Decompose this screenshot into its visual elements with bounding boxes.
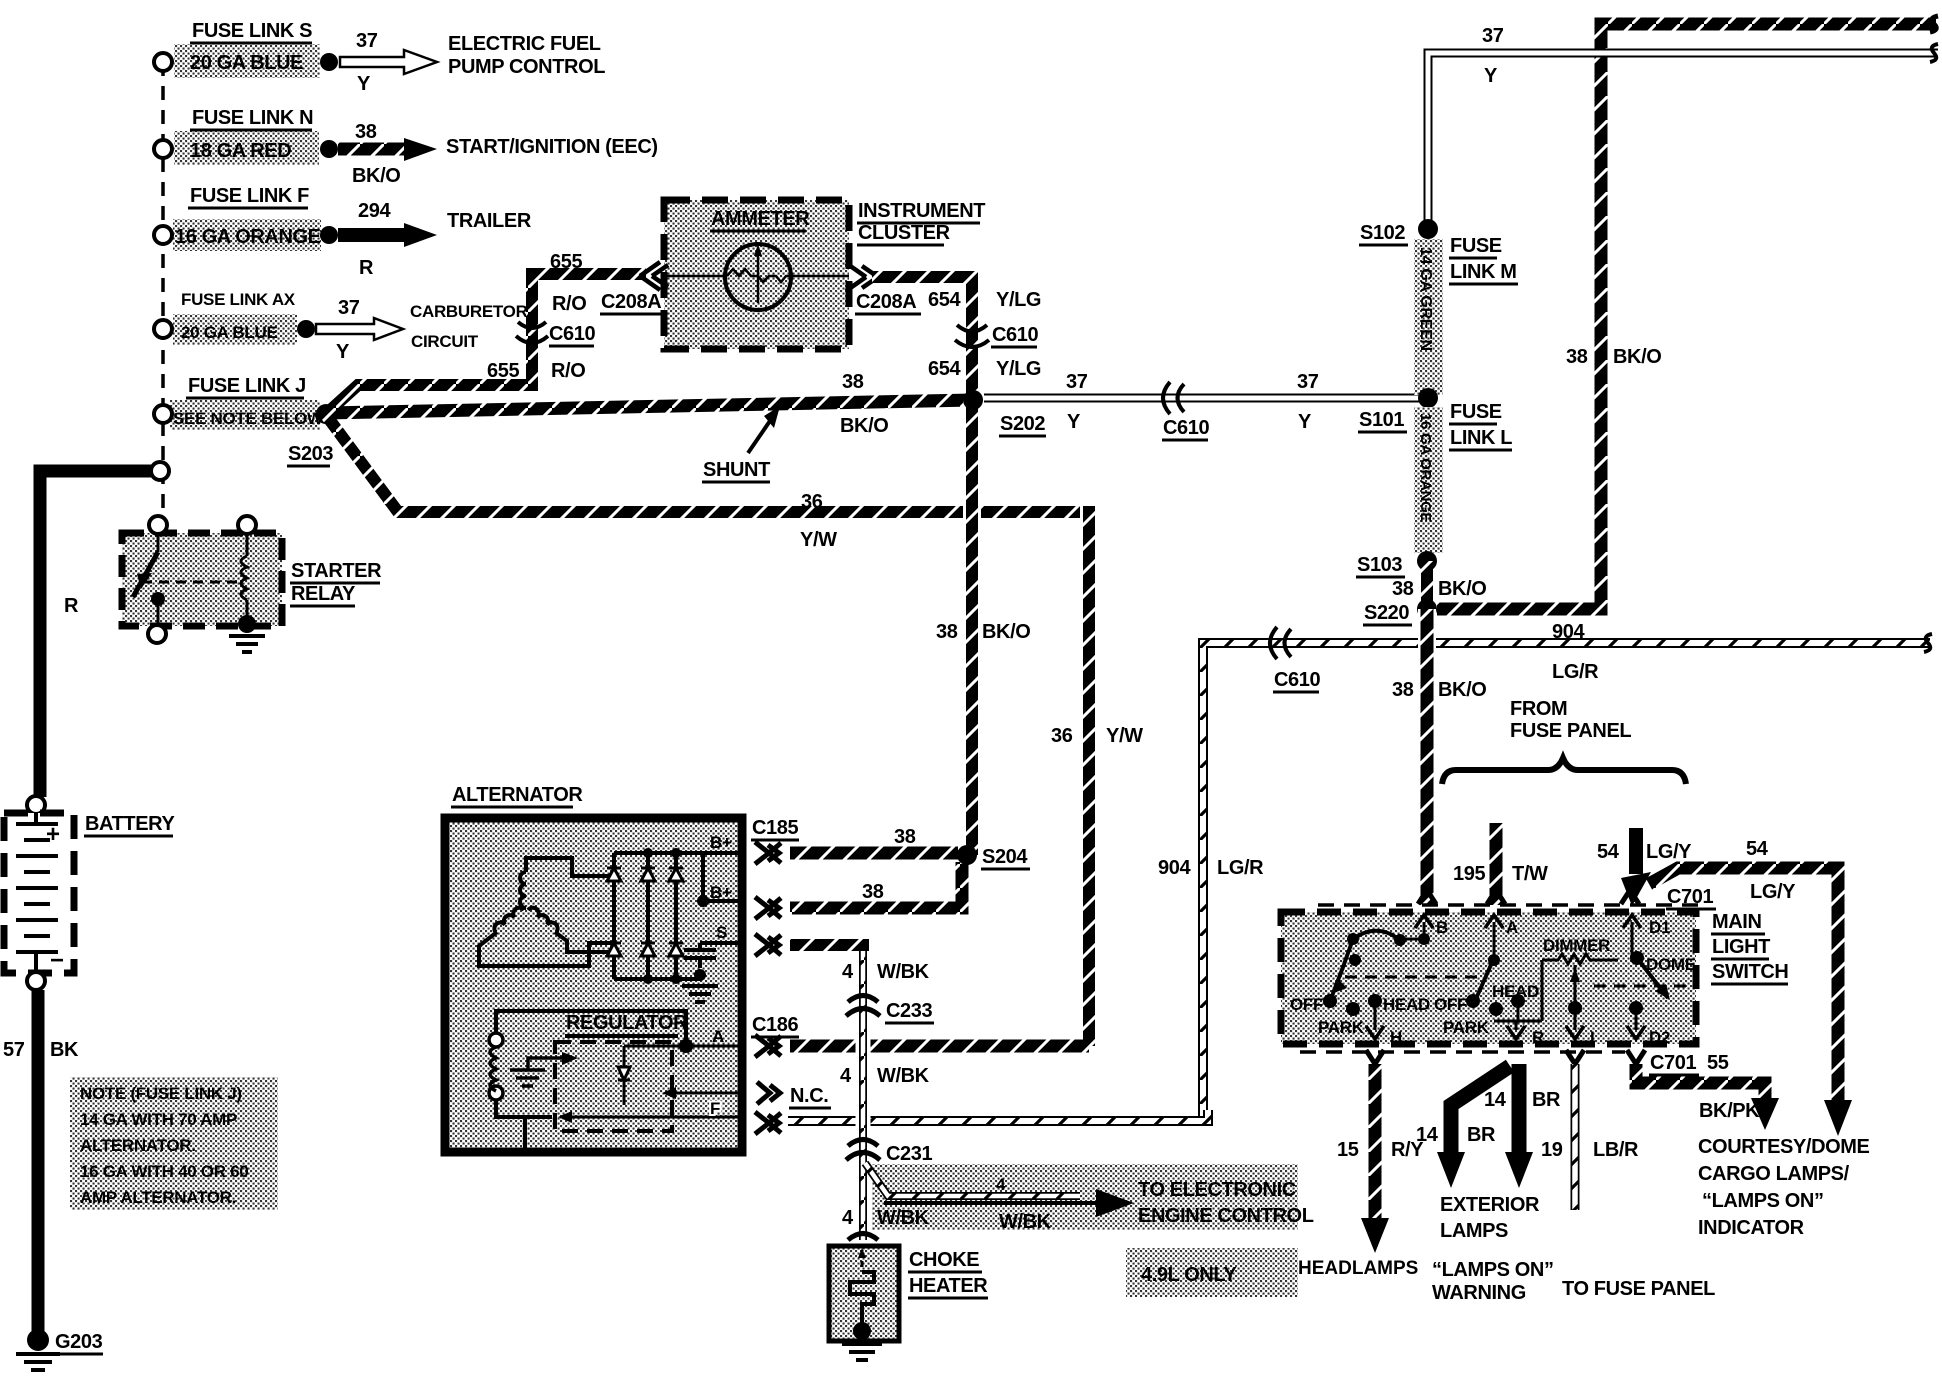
battery box bbox=[4, 813, 74, 973]
svg-text:54: 54 bbox=[1597, 841, 1620, 863]
svg-text:C233: C233 bbox=[886, 1000, 932, 1022]
svg-text:COURTESY/DOME: COURTESY/DOME bbox=[1698, 1136, 1870, 1158]
alternator box bbox=[445, 818, 742, 1152]
svg-text:CHOKE: CHOKE bbox=[909, 1249, 979, 1271]
svg-text:Y/W: Y/W bbox=[800, 529, 837, 551]
svg-text:INDICATOR: INDICATOR bbox=[1698, 1217, 1805, 1239]
svg-text:FUSE LINK F: FUSE LINK F bbox=[190, 185, 309, 207]
svg-text:W/BK: W/BK bbox=[877, 961, 930, 983]
H contact lead bbox=[1374, 1001, 1377, 1030]
svg-text:Y: Y bbox=[1298, 411, 1312, 433]
svg-text:F: F bbox=[710, 1099, 720, 1118]
svg-text:C208A: C208A bbox=[601, 291, 661, 313]
svg-text:C610: C610 bbox=[1274, 669, 1320, 691]
svg-text:OFF: OFF bbox=[1434, 995, 1467, 1014]
svg-text:“LAMPS ON”: “LAMPS ON” bbox=[1432, 1259, 1554, 1281]
svg-text:PUMP CONTROL: PUMP CONTROL bbox=[448, 56, 605, 78]
svg-text:ELECTRIC FUEL: ELECTRIC FUEL bbox=[448, 33, 601, 55]
svg-text:FUSE LINK J: FUSE LINK J bbox=[188, 375, 306, 397]
svg-text:CARGO LAMPS/: CARGO LAMPS/ bbox=[1698, 1163, 1850, 1185]
svg-text:38: 38 bbox=[894, 826, 916, 848]
svg-text:C208A: C208A bbox=[856, 291, 916, 313]
node S102 bbox=[1418, 219, 1438, 239]
svg-text:PARK: PARK bbox=[1318, 1018, 1365, 1037]
svg-text:RELAY: RELAY bbox=[291, 583, 356, 605]
svg-text:654: 654 bbox=[928, 358, 961, 380]
node dots in left switch section bbox=[1418, 933, 1430, 945]
fuse link M shaded band 14 GA GREEN bbox=[1414, 239, 1443, 395]
regulator dashed box bbox=[555, 1042, 672, 1131]
wire 36 Y/W from splice diagonal then right bbox=[326, 415, 1089, 512]
svg-text:D1: D1 bbox=[1649, 918, 1670, 937]
wire 14 BR right branch to exterior lamps bbox=[1512, 1064, 1527, 1152]
svg-text:294: 294 bbox=[358, 200, 391, 222]
node: fuse link J terminal circle bbox=[154, 405, 172, 423]
wire 37 Y hollow arrow to electric fuel pump control bbox=[340, 50, 437, 74]
svg-text:MAIN: MAIN bbox=[1712, 911, 1762, 933]
svg-text:W/BK: W/BK bbox=[877, 1065, 930, 1087]
A wiper bbox=[1475, 958, 1494, 1001]
node S220 bbox=[1417, 599, 1437, 619]
switch arm from B bbox=[1400, 938, 1424, 941]
wire 38 from C185 B+ to S204 bbox=[790, 847, 958, 860]
node: splice dot at fuse link N output bbox=[320, 140, 338, 158]
node: A output dot bbox=[624, 1045, 742, 1048]
dome wiper bbox=[1637, 958, 1668, 998]
svg-text:19: 19 bbox=[1541, 1139, 1563, 1161]
svg-text:BK/O: BK/O bbox=[982, 621, 1030, 643]
svg-text:ALTERNATOR.: ALTERNATOR. bbox=[80, 1136, 196, 1155]
svg-text:WARNING: WARNING bbox=[1432, 1282, 1526, 1304]
svg-text:37: 37 bbox=[356, 30, 378, 52]
svg-text:FROM: FROM bbox=[1510, 698, 1567, 720]
svg-text:SWITCH: SWITCH bbox=[1712, 961, 1788, 983]
wire branch from C231 to EEC arrow bbox=[865, 1163, 1080, 1196]
svg-text:TO FUSE PANEL: TO FUSE PANEL bbox=[1562, 1278, 1715, 1300]
wire 37 Y hollow from S202 to S101 bbox=[984, 394, 1428, 403]
svg-text:S101: S101 bbox=[1359, 409, 1404, 431]
node: relay coil ground dot bbox=[238, 615, 256, 633]
svg-text:C186: C186 bbox=[752, 1014, 798, 1036]
svg-text:38: 38 bbox=[1392, 679, 1414, 701]
svg-text:+: + bbox=[46, 821, 60, 848]
terminal B arrow bbox=[1423, 922, 1426, 938]
ground (alternator internal) bbox=[694, 969, 706, 981]
4.9L only shaded box bbox=[1126, 1248, 1298, 1297]
svg-text:4: 4 bbox=[996, 1175, 1006, 1194]
fuse link N shaded body bbox=[174, 131, 319, 165]
dimmer rheostat bbox=[1542, 954, 1618, 964]
svg-text:4: 4 bbox=[840, 1065, 852, 1087]
ground (starter relay) bbox=[229, 636, 265, 652]
svg-text:CLUSTER: CLUSTER bbox=[858, 222, 951, 244]
svg-text:D2: D2 bbox=[1649, 1028, 1670, 1047]
regulator internal diode bbox=[618, 1067, 630, 1080]
ground (choke heater) bbox=[842, 1344, 882, 1360]
choke heater element bbox=[861, 1250, 864, 1272]
dashed detent line bbox=[1345, 976, 1481, 979]
svg-text:16 GA WITH 40 OR 60: 16 GA WITH 40 OR 60 bbox=[80, 1162, 248, 1181]
ammeter box (instrument cluster) bbox=[664, 200, 849, 349]
node: splice dot at fuse link AX output bbox=[297, 320, 315, 338]
svg-text:I: I bbox=[1590, 1028, 1594, 1047]
connector C610 on 904 wire bbox=[1270, 627, 1291, 659]
starter relay box bbox=[122, 533, 282, 626]
regulator internal ground bbox=[510, 1070, 545, 1086]
svg-text:18 GA RED: 18 GA RED bbox=[190, 140, 291, 162]
svg-text:4: 4 bbox=[842, 1207, 854, 1229]
wire: dashed feed line from battery junction up fuse links bbox=[161, 62, 165, 530]
wire 38 BK/O from S220 down to light switch B bbox=[1418, 609, 1436, 905]
svg-text:37: 37 bbox=[1066, 371, 1088, 393]
svg-text:ALTERNATOR: ALTERNATOR bbox=[452, 784, 583, 806]
svg-text:FUSE: FUSE bbox=[1450, 235, 1502, 257]
svg-text:W/BK: W/BK bbox=[877, 1207, 930, 1229]
svg-text:DOME: DOME bbox=[1646, 955, 1696, 974]
svg-text:FUSE: FUSE bbox=[1450, 401, 1502, 423]
node: relay switch top terminal bbox=[149, 516, 167, 534]
svg-text:R/O: R/O bbox=[551, 360, 585, 382]
svg-text:NOTE (FUSE LINK J): NOTE (FUSE LINK J) bbox=[80, 1084, 242, 1103]
connector C233 bbox=[846, 996, 880, 1017]
connector C610 on 655 wire bbox=[516, 322, 548, 343]
wire 904 LG/R hollow hatched bbox=[1203, 643, 1930, 1121]
fuse link F shaded body bbox=[173, 219, 321, 251]
connector C208A left half bbox=[640, 262, 668, 290]
wire 38 BK/O hatched arrow to start/ignition bbox=[338, 143, 404, 156]
wire F output hollow to 904 riser bbox=[788, 1110, 1208, 1121]
node: D2 dot bbox=[1629, 1001, 1643, 1015]
svg-text:EXTERIOR: EXTERIOR bbox=[1440, 1194, 1540, 1216]
svg-text:Y/W: Y/W bbox=[1106, 725, 1143, 747]
capacitor inside alternator bbox=[684, 943, 716, 968]
svg-text:38: 38 bbox=[1392, 578, 1414, 600]
svg-text:STARTER: STARTER bbox=[291, 560, 382, 582]
wire to N.C. pin bbox=[676, 1092, 742, 1095]
svg-text:AMP ALTERNATOR.: AMP ALTERNATOR. bbox=[80, 1188, 236, 1207]
wire S terminal stub bbox=[790, 939, 869, 951]
field winding coil bbox=[490, 1047, 496, 1091]
fuse link S shaded body bbox=[174, 44, 320, 78]
node: fuse link F terminal circle bbox=[154, 226, 172, 244]
svg-text:38: 38 bbox=[1566, 346, 1588, 368]
node: battery negative terminal circle bbox=[27, 972, 45, 990]
node: relay coil top terminal bbox=[238, 516, 256, 534]
wire 294 R solid arrow to trailer bbox=[338, 228, 404, 242]
brace under from fuse panel bbox=[1442, 758, 1686, 784]
svg-text:LG/Y: LG/Y bbox=[1750, 881, 1796, 903]
svg-text:BK: BK bbox=[50, 1039, 79, 1061]
svg-text:C185: C185 bbox=[752, 817, 798, 839]
choke heater box bbox=[829, 1246, 899, 1341]
ammeter internal wire bbox=[664, 275, 727, 278]
svg-text:14 GA GREEN: 14 GA GREEN bbox=[1417, 247, 1434, 351]
fuse link AX shaded body bbox=[173, 314, 297, 345]
svg-text:904: 904 bbox=[1552, 621, 1585, 643]
connector C610 on 654 wire bbox=[955, 325, 989, 347]
svg-text:54: 54 bbox=[1746, 838, 1769, 860]
node: choke heater ground dot bbox=[853, 1322, 871, 1340]
node: fuse link AX terminal circle bbox=[154, 320, 172, 338]
connector forks at switch bottom bbox=[1366, 1050, 1645, 1064]
svg-text:36: 36 bbox=[801, 491, 823, 513]
dimmer tap bbox=[1574, 965, 1577, 1003]
svg-text:FUSE LINK N: FUSE LINK N bbox=[192, 107, 313, 129]
svg-text:Y: Y bbox=[1484, 65, 1498, 87]
svg-text:14: 14 bbox=[1416, 1124, 1439, 1146]
svg-text:S204: S204 bbox=[982, 846, 1028, 868]
svg-text:37: 37 bbox=[1482, 25, 1504, 47]
svg-text:HEADLAMPS: HEADLAMPS bbox=[1298, 1258, 1418, 1279]
regulator outer line bbox=[496, 1011, 686, 1152]
wire to F pin bbox=[560, 1116, 742, 1119]
wire break hook at right end of 904 bbox=[1924, 634, 1932, 652]
svg-text:55: 55 bbox=[1707, 1052, 1729, 1074]
wire 38 BK/O shunt from splice to S202 bbox=[326, 400, 973, 413]
svg-text:20 GA BLUE: 20 GA BLUE bbox=[181, 323, 278, 342]
svg-text:FUSE LINK AX: FUSE LINK AX bbox=[181, 290, 296, 309]
svg-text:36: 36 bbox=[1051, 725, 1073, 747]
connector C186 pins bbox=[755, 1035, 781, 1134]
dashed detent line (right) bbox=[1594, 985, 1688, 988]
svg-text:655: 655 bbox=[550, 251, 582, 273]
svg-text:Y/LG: Y/LG bbox=[996, 358, 1041, 380]
svg-text:4: 4 bbox=[842, 961, 854, 983]
wire 38 BK/O heavy feed (top) bbox=[1437, 24, 1936, 609]
svg-text:G203: G203 bbox=[55, 1331, 103, 1353]
svg-text:16 GA ORANGE: 16 GA ORANGE bbox=[1417, 413, 1434, 522]
node: relay output terminal bbox=[148, 625, 166, 643]
connector C208A right half bbox=[846, 263, 878, 291]
node: off2 dot bbox=[1466, 994, 1480, 1008]
node: head2/park2 dots bbox=[1489, 1002, 1503, 1016]
ground G203 bbox=[27, 1329, 49, 1351]
svg-text:LIGHT: LIGHT bbox=[1712, 936, 1770, 958]
node: splice dot at fuse link S output bbox=[320, 53, 338, 71]
svg-text:4.9L ONLY: 4.9L ONLY bbox=[1141, 1264, 1237, 1286]
svg-text:C610: C610 bbox=[1163, 417, 1209, 439]
svg-text:OFF: OFF bbox=[1290, 995, 1323, 1014]
wire 14 BR left branch to exterior lamps bbox=[1451, 1066, 1510, 1152]
svg-text:H: H bbox=[1390, 1028, 1402, 1047]
node S202 bbox=[963, 390, 983, 410]
battery plates symbol bbox=[16, 813, 58, 973]
svg-text:C610: C610 bbox=[549, 323, 595, 345]
svg-text:HEAD: HEAD bbox=[1383, 995, 1430, 1014]
relay coil bbox=[246, 534, 249, 556]
node: fuse link N terminal circle bbox=[154, 140, 172, 158]
node S204 bbox=[957, 845, 977, 865]
svg-text:LINK L: LINK L bbox=[1450, 427, 1512, 449]
wire 4 W/BK from C186 A to 36 Y/W leg bbox=[790, 1040, 1089, 1053]
wire: heavy battery positive cable R bbox=[40, 471, 152, 797]
svg-text:FUSE PANEL: FUSE PANEL bbox=[1510, 720, 1631, 742]
svg-text:BR: BR bbox=[1532, 1089, 1561, 1111]
svg-text:W/BK: W/BK bbox=[999, 1211, 1052, 1233]
node S101 bbox=[1418, 388, 1438, 408]
svg-text:CARBURETOR: CARBURETOR bbox=[410, 302, 528, 321]
svg-text:37: 37 bbox=[338, 297, 360, 319]
wire 655 R/O from fuse link J splice up to C610 and ammeter bbox=[326, 274, 646, 414]
svg-text:B+: B+ bbox=[710, 833, 732, 852]
svg-text:14: 14 bbox=[1484, 1089, 1507, 1111]
R contact leads bbox=[1494, 960, 1542, 1030]
svg-text:S220: S220 bbox=[1364, 602, 1409, 624]
svg-text:INSTRUMENT: INSTRUMENT bbox=[858, 200, 985, 222]
terminal D1 arrow bbox=[1631, 922, 1634, 956]
wire break hook at right end of 37 feed bbox=[1930, 44, 1938, 62]
stator windings bbox=[479, 858, 614, 966]
svg-text:BK/O: BK/O bbox=[840, 415, 888, 437]
svg-text:38: 38 bbox=[355, 121, 377, 143]
wire 38 BK/O from S202 down to S204 bbox=[963, 400, 981, 855]
wire 38 BK/O between S103 and S220 bbox=[1421, 561, 1433, 609]
svg-text:ENGINE CONTROL: ENGINE CONTROL bbox=[1138, 1205, 1314, 1227]
svg-text:LINK M: LINK M bbox=[1450, 261, 1516, 283]
svg-text:Y: Y bbox=[1067, 411, 1081, 433]
svg-text:BK/O: BK/O bbox=[1438, 679, 1486, 701]
terminal A arrow bbox=[1493, 922, 1496, 958]
svg-text:R/O: R/O bbox=[552, 293, 586, 315]
wire 37 Y hollow arrow to carburetor circuit bbox=[316, 318, 403, 340]
connector C185 pins bbox=[755, 842, 781, 956]
svg-text:655: 655 bbox=[487, 360, 519, 382]
wire 55 BK/PK from D2 to courtesy lamps bbox=[1636, 1064, 1765, 1098]
svg-text:S103: S103 bbox=[1357, 554, 1402, 576]
svg-text:904: 904 bbox=[1158, 857, 1191, 879]
svg-text:BR: BR bbox=[1467, 1124, 1496, 1146]
diodes top row bbox=[607, 868, 683, 881]
svg-text:16 GA ORANGE: 16 GA ORANGE bbox=[175, 226, 321, 248]
svg-text:38: 38 bbox=[842, 371, 864, 393]
relay switch blade bbox=[157, 534, 160, 552]
svg-text:N.C.: N.C. bbox=[790, 1085, 828, 1107]
svg-text:CIRCUIT: CIRCUIT bbox=[411, 332, 479, 351]
node: diode rail junction dots bbox=[643, 848, 653, 858]
svg-text:A: A bbox=[1506, 918, 1518, 937]
wire 57 BK battery ground cable bbox=[32, 990, 45, 1338]
svg-text:38: 38 bbox=[936, 621, 958, 643]
wire 15 R/Y to headlamps bbox=[1369, 1064, 1382, 1218]
svg-text:R: R bbox=[359, 257, 374, 279]
svg-text:BATTERY: BATTERY bbox=[85, 813, 175, 835]
wire break hook at right end of 38 feed bbox=[1930, 16, 1938, 32]
node: relay lower contact bbox=[151, 592, 165, 606]
fuse link J shaded body bbox=[170, 400, 320, 430]
arrow to electronic engine control bbox=[884, 1201, 1096, 1205]
wire 4 W/BK hollow vertical from S stub to choke heater bbox=[856, 945, 871, 1240]
svg-text:R: R bbox=[64, 595, 79, 617]
connector above choke heater bbox=[848, 1234, 878, 1241]
relay actuating dashed link bbox=[142, 581, 240, 584]
svg-text:Y: Y bbox=[336, 341, 350, 363]
wire 654 Y/LG from ammeter right to S202 bbox=[872, 277, 972, 398]
svg-text:SEE NOTE BELOW: SEE NOTE BELOW bbox=[173, 409, 324, 428]
svg-text:14 GA WITH 70 AMP: 14 GA WITH 70 AMP bbox=[80, 1110, 237, 1129]
svg-text:38: 38 bbox=[862, 881, 884, 903]
svg-text:TO ELECTRONIC: TO ELECTRONIC bbox=[1138, 1179, 1296, 1201]
svg-text:BK/PK: BK/PK bbox=[1699, 1100, 1760, 1122]
svg-text:“LAMPS ON”: “LAMPS ON” bbox=[1702, 1190, 1824, 1212]
svg-text:BK/O: BK/O bbox=[1438, 578, 1486, 600]
svg-text:S: S bbox=[716, 923, 727, 942]
svg-text:R: R bbox=[1532, 1028, 1544, 1047]
wire 54 LG/Y branch to courtesy lamps bbox=[1649, 868, 1838, 1100]
svg-text:SHUNT: SHUNT bbox=[703, 459, 770, 481]
svg-text:FUSE LINK S: FUSE LINK S bbox=[192, 20, 312, 42]
C701 dashed connector line (bottom) bbox=[1300, 1050, 1625, 1054]
connector C610 on 37 wire bbox=[1163, 382, 1184, 414]
svg-text:654: 654 bbox=[928, 289, 961, 311]
ammeter meter circle bbox=[725, 244, 791, 310]
svg-text:B: B bbox=[1436, 918, 1448, 937]
fuse link L shaded band 16 GA ORANGE bbox=[1414, 407, 1443, 553]
svg-text:BK/O: BK/O bbox=[1613, 346, 1661, 368]
EEC shaded box bbox=[872, 1164, 1298, 1230]
svg-text:15: 15 bbox=[1337, 1139, 1359, 1161]
node: splice dot S203 feed bbox=[316, 404, 336, 424]
svg-text:A: A bbox=[712, 1027, 724, 1046]
svg-text:START/IGNITION (EEC): START/IGNITION (EEC) bbox=[446, 136, 658, 158]
svg-text:LG/R: LG/R bbox=[1552, 661, 1599, 683]
node: splice dot at fuse link F output bbox=[320, 226, 338, 244]
svg-text:−: − bbox=[50, 947, 64, 974]
svg-text:T/W: T/W bbox=[1512, 863, 1548, 885]
svg-text:S202: S202 bbox=[1000, 413, 1045, 435]
svg-text:LG/Y: LG/Y bbox=[1646, 841, 1692, 863]
wire 37 Y hollow feed (top) bbox=[1428, 53, 1938, 229]
note box (fuse link J note) bbox=[70, 1077, 278, 1210]
ammeter needle bbox=[757, 252, 760, 303]
node: battery positive terminal circle bbox=[27, 796, 45, 814]
svg-text:BK/O: BK/O bbox=[352, 165, 400, 187]
node: fuse link S terminal circle bbox=[154, 53, 172, 71]
svg-text:HEATER: HEATER bbox=[909, 1275, 988, 1297]
node: dome dot bbox=[1630, 951, 1644, 965]
svg-text:AMMETER: AMMETER bbox=[711, 208, 810, 230]
connector forks at switch top bbox=[1418, 890, 1639, 904]
rectifier diode bridge rails bbox=[614, 853, 742, 979]
diodes bottom row bbox=[607, 943, 683, 956]
wire 38 from C185 B+2 up to S204 bbox=[790, 862, 962, 908]
connector C231 bbox=[846, 1140, 880, 1161]
svg-text:DIMMER: DIMMER bbox=[1543, 936, 1610, 955]
svg-text:PARK: PARK bbox=[1443, 1018, 1490, 1037]
svg-text:C701: C701 bbox=[1650, 1052, 1696, 1074]
svg-text:REGULATOR: REGULATOR bbox=[566, 1012, 688, 1034]
node: field brush circles bbox=[489, 1033, 503, 1047]
svg-text:TRAILER: TRAILER bbox=[447, 210, 532, 232]
svg-text:57: 57 bbox=[3, 1039, 25, 1061]
svg-text:195: 195 bbox=[1453, 863, 1485, 885]
svg-text:S102: S102 bbox=[1360, 222, 1405, 244]
wire 19 LB/R hollow to fuse panel bbox=[1571, 1064, 1580, 1210]
svg-text:LG/R: LG/R bbox=[1217, 857, 1264, 879]
C701 dashed connector line (top) bbox=[1318, 903, 1700, 907]
wire 195 T/W from fuse panel bbox=[1490, 823, 1503, 905]
svg-text:C231: C231 bbox=[886, 1143, 932, 1165]
svg-text:Y: Y bbox=[357, 73, 371, 95]
svg-text:Y/LG: Y/LG bbox=[996, 289, 1041, 311]
wire 54 LG/Y from fuse panel to D1 bbox=[1629, 828, 1643, 874]
svg-text:S203: S203 bbox=[288, 443, 333, 465]
svg-text:B+: B+ bbox=[710, 883, 732, 902]
svg-text:LB/R: LB/R bbox=[1593, 1139, 1639, 1161]
svg-text:C610: C610 bbox=[992, 324, 1038, 346]
svg-text:37: 37 bbox=[1297, 371, 1319, 393]
main light switch box bbox=[1281, 912, 1696, 1044]
svg-text:20 GA BLUE: 20 GA BLUE bbox=[190, 52, 303, 74]
